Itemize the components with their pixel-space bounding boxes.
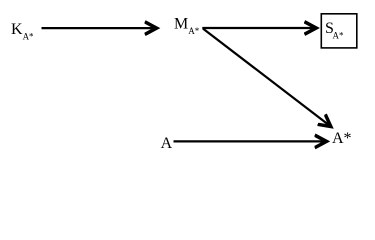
svg-text:A*: A* (332, 130, 352, 147)
svg-text:MA*: MA* (174, 16, 200, 36)
svg-text:SA*: SA* (325, 20, 344, 40)
wire arrow M_A* to S_A* box (202, 27, 316, 29)
wire arrow M_A* to A* (diagonal) (203, 29, 331, 127)
box around S_A* (321, 14, 357, 48)
svg-text:A: A (161, 135, 173, 152)
svg-text:KA*: KA* (11, 21, 34, 41)
wire arrow K_A* to M_A* (42, 27, 157, 29)
wire arrow A to A* (174, 140, 327, 142)
